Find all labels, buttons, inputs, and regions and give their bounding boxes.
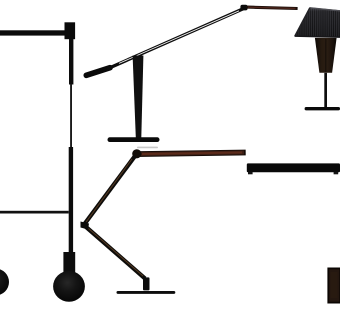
desk lamp arm bbox=[107, 9, 243, 69]
second ball partial bbox=[0, 269, 9, 296]
table lamp stem bbox=[324, 73, 327, 108]
K lamp foot bbox=[143, 277, 150, 290]
K lamp wood bar bbox=[135, 153, 246, 155]
K lamp left joint bbox=[132, 149, 141, 158]
floor lamp top joint bbox=[65, 22, 76, 39]
bar lamp bbox=[247, 163, 340, 174]
K lamp upper arm bbox=[85, 156, 136, 224]
floor lamp top arm bbox=[0, 30, 66, 35]
floor lamp crossbar bbox=[0, 211, 69, 214]
K lamp base bbox=[117, 291, 176, 294]
desk lamp stem bbox=[133, 56, 144, 138]
desk lamp wood arm bbox=[247, 7, 298, 8]
desk lamp head bbox=[86, 68, 110, 76]
table lamp body bbox=[315, 38, 337, 73]
table lamp base bbox=[305, 107, 340, 110]
K lamp elbow bbox=[81, 222, 90, 230]
floor lamp neck bbox=[63, 252, 75, 273]
floor lamp ball bbox=[53, 271, 85, 302]
desk lamp base bbox=[108, 137, 160, 142]
desk lamp top joint bbox=[240, 5, 247, 11]
floor lamp cable bbox=[70, 84, 72, 148]
floor lamp upper pole bbox=[69, 39, 73, 85]
K lamp lower arm bbox=[86, 227, 146, 279]
brown box bbox=[328, 268, 340, 302]
floor lamp lower pole bbox=[69, 147, 73, 253]
table lamp shade bbox=[294, 7, 340, 37]
